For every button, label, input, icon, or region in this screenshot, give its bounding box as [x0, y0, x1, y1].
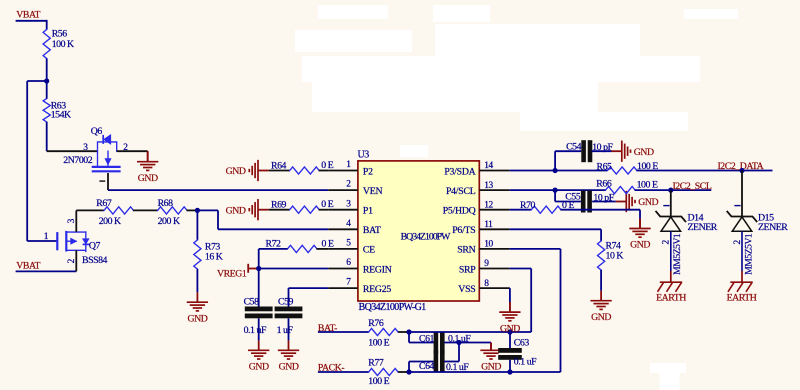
diode D14 ZENER: [656, 190, 718, 275]
svg-text:10 K: 10 K: [606, 251, 624, 262]
pin 8 VSS: [458, 279, 509, 295]
resistor R69: [271, 199, 334, 213]
svg-text:R64: R64: [271, 160, 287, 171]
svg-text:R76: R76: [368, 318, 384, 329]
svg-text:11: 11: [484, 220, 493, 230]
node junction C55 tap: [553, 188, 558, 193]
svg-text:R67: R67: [96, 198, 112, 209]
earth ground below D14: [656, 282, 686, 303]
pin 7 REG25: [328, 278, 391, 295]
svg-text:C54: C54: [566, 141, 582, 152]
svg-text:VREG1: VREG1: [217, 268, 247, 279]
wire C64 right to node: [458, 343, 460, 362]
svg-text:U3: U3: [358, 150, 370, 161]
svg-text:BAT: BAT: [363, 225, 381, 236]
svg-text:0 E: 0 E: [322, 238, 334, 249]
svg-text:R70: R70: [520, 200, 536, 211]
svg-text:BQ34Z100PW: BQ34Z100PW: [401, 232, 452, 243]
capacitor C63: [498, 338, 537, 368]
wire R77 to node: [398, 371, 409, 373]
wire R64 to pin 1: [319, 170, 329, 172]
ground GND below R73: [187, 292, 208, 324]
svg-text:Q6: Q6: [91, 126, 103, 137]
wire GND to R64: [269, 170, 290, 172]
wire Q6 gate to VEN: [108, 173, 328, 190]
svg-text:16 K: 16 K: [205, 251, 223, 262]
pin 10 SRN: [457, 240, 510, 256]
pin 5 CE: [328, 239, 375, 256]
power port VREG1: [217, 264, 259, 280]
wire Q7 to R67: [76, 209, 104, 211]
resistor R65: [597, 161, 659, 174]
svg-text:3: 3: [83, 143, 88, 153]
resistor R73: [194, 240, 223, 269]
wire node to C58: [258, 269, 260, 307]
ground GND at Q6: [137, 151, 158, 184]
svg-text:P1: P1: [363, 206, 373, 217]
svg-text:8: 8: [484, 279, 489, 289]
resistor R77: [368, 357, 398, 386]
ground GND below C59: [278, 340, 299, 372]
pin 12 P5/HDQ: [443, 200, 510, 216]
transistor Q7 BSS84: [57, 218, 107, 266]
pin 2 VEN: [328, 180, 382, 197]
wire Q7 drain up to R67 row: [75, 210, 77, 232]
node junction C61/C64 gnd: [456, 340, 461, 345]
wire pin 12 to R70: [510, 209, 532, 211]
svg-text:GND: GND: [634, 147, 654, 158]
svg-text:P2: P2: [363, 166, 373, 177]
wire Q6 source to GND: [117, 143, 148, 153]
capacitor C64: [419, 351, 469, 374]
wire R56 to node: [46, 59, 48, 82]
svg-text:GND: GND: [638, 197, 658, 208]
resistor R64: [271, 160, 334, 174]
wire pin 11 to R74: [510, 229, 601, 241]
svg-text:SRN: SRN: [457, 245, 475, 256]
op-amp U3 BQ34Z100PW body: [358, 150, 480, 314]
svg-text:1 uF: 1 uF: [277, 325, 294, 336]
capacitor C61: [419, 332, 471, 354]
svg-text:P5/HDQ: P5/HDQ: [443, 206, 476, 217]
svg-text:100 K: 100 K: [52, 39, 74, 50]
svg-text:200 K: 200 K: [158, 216, 180, 227]
svg-text:VBAT: VBAT: [16, 10, 40, 21]
svg-text:P4/SCL: P4/SCL: [446, 186, 476, 197]
svg-text:VEN: VEN: [363, 186, 383, 197]
wire C54 to GND: [591, 150, 611, 152]
white background blob region top: [295, 5, 738, 157]
svg-text:REGIN: REGIN: [363, 264, 392, 275]
svg-text:R68: R68: [158, 198, 174, 209]
svg-text:0 E: 0 E: [321, 160, 333, 171]
earth ground below D15: [727, 282, 757, 303]
svg-text:P6/TS: P6/TS: [452, 225, 475, 236]
wire VBAT to R56: [46, 20, 48, 30]
svg-text:VSS: VSS: [458, 284, 475, 295]
svg-text:100 E: 100 E: [637, 180, 658, 191]
svg-text:9: 9: [484, 259, 489, 269]
node junction C63 top: [507, 329, 512, 334]
wire R72 to pin 5: [317, 248, 329, 250]
svg-text:GND: GND: [226, 205, 246, 216]
wire node to Q7 gate (left branch): [27, 81, 57, 242]
svg-text:GND: GND: [138, 173, 158, 184]
wire R68 to node: [187, 209, 198, 211]
resistor R68: [158, 198, 187, 227]
svg-text:BSS84: BSS84: [82, 255, 108, 266]
wire C55 to GND: [592, 201, 616, 203]
svg-text:I2C2_SCL: I2C2_SCL: [673, 181, 712, 192]
wire node to C64: [409, 362, 434, 373]
pin 13 P4/SCL: [446, 181, 510, 197]
svg-text:C61: C61: [419, 333, 435, 344]
ground GND below R74: [590, 291, 611, 323]
wire C63 top: [509, 332, 511, 348]
svg-text:R77: R77: [368, 357, 384, 368]
wire pin 14 to R65: [510, 170, 608, 172]
ground GND at C54: [611, 141, 654, 162]
wire R72 to VREG1 node: [259, 249, 288, 269]
svg-text:100 E: 100 E: [368, 337, 389, 348]
wire R65 to I2C2_DATA: [636, 170, 772, 172]
svg-text:P3/SDA: P3/SDA: [444, 166, 475, 177]
ground GND end of HDQ row: [629, 219, 650, 251]
node junction D14: [668, 188, 673, 193]
wire R70 to GND: [560, 210, 640, 219]
pin 1 P2: [328, 160, 373, 177]
svg-text:C64: C64: [419, 361, 435, 372]
wire C54 tap: [555, 151, 581, 170]
wire R67 to R68: [133, 209, 158, 211]
svg-text:GND: GND: [481, 362, 501, 373]
svg-text:0.1 uF: 0.1 uF: [514, 357, 537, 368]
power port VBAT (bottom): [16, 261, 77, 272]
wire R73 to GND: [196, 269, 198, 292]
wire D14 to EARTH: [670, 231, 672, 282]
svg-text:SRP: SRP: [459, 264, 476, 275]
node junction C54 tap: [553, 168, 558, 173]
svg-text:C63: C63: [514, 338, 530, 349]
net label BAT-: [318, 323, 369, 334]
wire C55 tap: [555, 190, 581, 201]
svg-text:C59: C59: [278, 297, 294, 308]
wire node to BAT pin 4: [197, 210, 328, 229]
pin 6 REGIN: [328, 258, 391, 275]
white blob bottom right: [650, 363, 686, 390]
svg-text:GND: GND: [630, 240, 650, 251]
capacitor C55: [565, 191, 614, 213]
node junction D15: [739, 168, 744, 173]
svg-text:100 E: 100 E: [368, 376, 389, 387]
wire node to R73: [196, 210, 198, 240]
svg-text:12: 12: [484, 200, 493, 210]
ground GND right of C61: [480, 343, 501, 373]
svg-text:C58: C58: [244, 297, 260, 308]
wire node to C61: [409, 332, 434, 343]
svg-text:GND: GND: [279, 362, 299, 373]
svg-text:R72: R72: [266, 238, 282, 249]
svg-text:R66: R66: [596, 179, 612, 190]
pin 3 P1: [328, 199, 373, 216]
svg-text:154K: 154K: [51, 110, 71, 121]
svg-text:REG25: REG25: [363, 284, 391, 295]
svg-text:GND: GND: [591, 312, 611, 323]
node junction VREG1/REGIN: [256, 266, 261, 271]
capacitor C59: [275, 297, 303, 336]
svg-text:EARTH: EARTH: [727, 293, 757, 304]
resistor R76: [368, 318, 398, 348]
power port VBAT (top): [16, 10, 47, 21]
resistor R56: [43, 29, 74, 59]
wire C64 to gnd node: [444, 361, 459, 363]
svg-text:GND: GND: [500, 323, 520, 334]
transistor Q6 2N7002: [91, 126, 121, 181]
ground GND below C58: [248, 340, 269, 372]
svg-text:2N7002: 2N7002: [63, 155, 92, 166]
svg-text:1: 1: [44, 232, 49, 242]
wire GND to R69: [269, 209, 290, 211]
pin 9 SRP: [459, 259, 510, 275]
wire R66 to I2C2_SCL: [635, 189, 712, 191]
svg-text:GND: GND: [187, 313, 207, 324]
wire pin 7 to C59: [289, 288, 329, 306]
ground GND at VSS: [499, 302, 520, 334]
node junction R56/R63: [44, 78, 49, 83]
svg-text:ZENER: ZENER: [758, 222, 788, 233]
diode D15 ZENER: [727, 171, 788, 275]
svg-text:GND: GND: [249, 362, 269, 373]
resistor R67: [96, 198, 133, 227]
resistor R72: [266, 238, 334, 252]
svg-text:ZENER: ZENER: [688, 222, 718, 233]
pin 11 P6/TS: [452, 220, 509, 236]
svg-text:0 E: 0 E: [321, 199, 333, 210]
wire VREG1 node to pin 6: [259, 268, 329, 270]
wire C58 to GND: [258, 318, 260, 340]
wire C59 to GND: [288, 318, 290, 340]
svg-text:Q7: Q7: [89, 241, 101, 252]
resistor R63: [43, 99, 71, 122]
svg-text:13: 13: [484, 181, 493, 191]
wire R69 to pin 3: [319, 209, 329, 211]
svg-text:MM5Z5V1: MM5Z5V1: [672, 233, 683, 275]
wire D15 to EARTH: [741, 231, 743, 282]
capacitor C54: [566, 140, 613, 162]
svg-text:VBAT: VBAT: [16, 261, 40, 272]
svg-text:2: 2: [67, 258, 77, 263]
node junction C63 bottom: [507, 369, 512, 374]
capacitor C58: [244, 297, 273, 336]
svg-text:2: 2: [123, 143, 128, 153]
wire C61 to GND node: [444, 342, 491, 344]
resistor R74: [598, 241, 624, 270]
svg-text:MM5Z5V1: MM5Z5V1: [743, 233, 754, 275]
wire SRP row: [409, 269, 531, 333]
wire C63 bottom: [509, 360, 511, 372]
svg-text:GND: GND: [226, 166, 246, 177]
node junction R68/R73: [195, 208, 200, 213]
wire R76 to node: [398, 331, 409, 333]
ground GND at R69: [226, 199, 269, 220]
svg-text:10: 10: [484, 240, 493, 250]
ground GND at R64: [226, 160, 269, 181]
svg-text:CE: CE: [363, 245, 375, 256]
svg-text:R69: R69: [271, 200, 287, 211]
pin 4 BAT: [328, 219, 381, 236]
wire Q7 source to VBAT: [75, 250, 77, 271]
svg-text:3: 3: [67, 218, 77, 223]
net label PACK-: [318, 362, 369, 373]
wire pin 13 to R66: [510, 189, 606, 191]
svg-text:BQ34Z100PW-G1: BQ34Z100PW-G1: [359, 302, 427, 313]
node junction R76/C61: [406, 329, 411, 334]
wire R63 to Q6 drain: [47, 81, 98, 166]
svg-text:14: 14: [484, 161, 493, 171]
wire SRN row: [409, 249, 561, 372]
ground GND at C55: [616, 191, 659, 212]
svg-text:R65: R65: [597, 161, 613, 172]
svg-text:EARTH: EARTH: [656, 293, 686, 304]
svg-text:0.1 uF: 0.1 uF: [244, 325, 267, 336]
resistor R70: [520, 200, 574, 213]
svg-text:200 K: 200 K: [99, 216, 121, 227]
pin 14 P3/SDA: [444, 161, 509, 177]
wire R74 to GND: [600, 270, 602, 291]
node junction R77/C64: [406, 369, 411, 374]
wire VSS to GND: [509, 288, 511, 302]
resistor R66: [596, 179, 658, 194]
